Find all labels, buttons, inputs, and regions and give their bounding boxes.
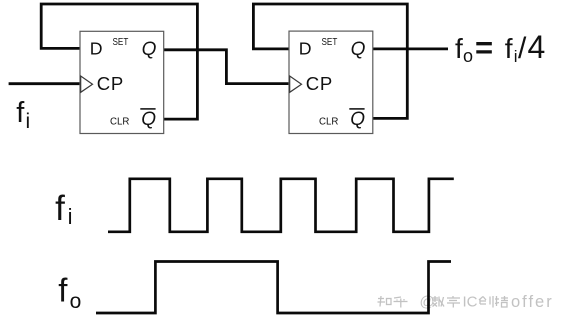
字 [447,296,460,308]
svg-text:f: f [455,33,463,64]
svg-text:Q: Q [350,109,365,130]
svg-text:D: D [90,39,103,59]
D flip-flop U2 box [289,31,373,133]
指 [495,296,508,307]
svg-text:CP: CP [306,73,333,94]
svg-text:SET: SET [322,37,338,48]
wire: Q2 output to f_o label [373,48,448,51]
svg-text:Q: Q [351,39,366,60]
svg-text:Q: Q [142,39,157,60]
wire: FF2 feedback Qbar2 up over top to D2 [253,4,407,118]
U2 clock triangle [290,76,302,92]
svg-text:CLR: CLR [110,116,129,127]
知 [378,296,392,307]
svg-text:SET: SET [113,37,129,48]
数 [432,296,444,307]
D flip-flop U1 box [80,31,164,133]
wire: FF1 feedback Qbar1 up over top to D1 [41,4,197,119]
乎 [394,297,408,308]
剑 [479,296,493,308]
svg-text:4: 4 [528,29,546,65]
svg-text:f: f [505,33,513,64]
svg-text:/: / [518,32,527,65]
svg-text:i: i [26,110,31,133]
U1 clock triangle [81,76,93,92]
svg-text:IC: IC [463,294,478,311]
svg-text:CLR: CLR [319,116,338,127]
svg-text:o: o [463,46,473,66]
svg-text:D: D [299,39,312,59]
svg-text:i: i [68,204,73,229]
waveform f_i (clock trace) [108,179,454,232]
wire: f_i input to FF1 CP [9,82,80,85]
svg-text:@: @ [420,294,435,311]
svg-text:o: o [70,290,82,313]
waveform f_o (divided output trace) [96,262,451,314]
svg-text:CP: CP [97,73,124,94]
svg-text:f: f [55,189,65,228]
svg-text:f: f [58,271,68,308]
svg-text:offer: offer [511,293,554,311]
wire: Q1 output to CP2 [164,50,289,84]
svg-text:i: i [514,47,518,66]
watermark 知乎 @数字IC剑指offer [378,296,509,308]
svg-text:Q: Q [141,109,156,130]
svg-text:=: = [475,30,493,65]
svg-text:f: f [16,97,25,129]
